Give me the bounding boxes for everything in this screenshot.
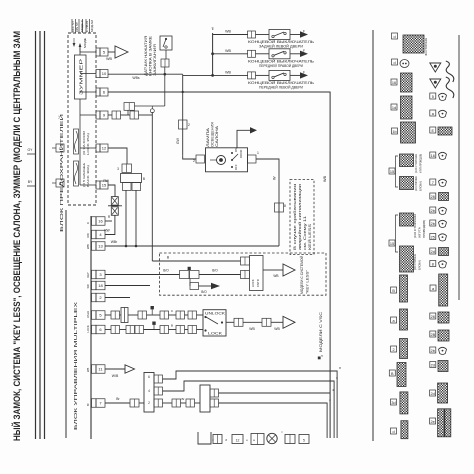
svg-text:WB: WB: [106, 57, 112, 61]
svg-text:RW: RW: [86, 233, 90, 238]
svg-text:E: E: [432, 129, 435, 133]
svg-text:UNLOCK: UNLOCK: [205, 312, 226, 316]
svg-text:1: 1: [257, 151, 259, 155]
svg-text:W: W: [273, 176, 277, 180]
svg-text:B: B: [171, 324, 173, 328]
svg-text:3d: 3d: [391, 401, 395, 405]
svg-text:2d: 2d: [431, 250, 435, 254]
svg-text:UNLK: UNLK: [86, 311, 90, 318]
svg-text:2e: 2e: [430, 420, 434, 424]
svg-text:C ЛЮЧ: C ЛЮЧ: [85, 21, 89, 32]
svg-text:26: 26: [431, 195, 435, 199]
svg-text:ЗАЖИГАНИЯ: ЗАЖИГАНИЯ: [153, 43, 157, 76]
svg-text:см. Схему 11: см. Схему 11: [303, 216, 307, 250]
svg-text:ДАТЧИК НАЖАТИЯ: ДАТЧИК НАЖАТИЯ: [144, 35, 148, 76]
svg-text:B/O: B/O: [201, 290, 207, 294]
svg-text:2b: 2b: [431, 209, 435, 213]
svg-text:F: F: [303, 49, 305, 53]
svg-text:8: 8: [284, 204, 286, 208]
svg-text:F: F: [303, 30, 305, 34]
svg-text:GW: GW: [176, 137, 180, 144]
svg-text:ПРОВОДОВ): ПРОВОДОВ): [422, 220, 426, 238]
svg-text:18: 18: [98, 283, 103, 288]
svg-text:C: C: [59, 147, 62, 151]
svg-text:ОСВЕЩЕНИЯ: ОСВЕЩЕНИЯ: [211, 122, 215, 147]
svg-text:15: 15: [390, 242, 394, 246]
svg-text:САЛОНА: САЛОНА: [215, 125, 219, 147]
svg-text:(СО СТОРОНЫ: (СО СТОРОНЫ: [414, 176, 418, 191]
svg-text:Έ: Έ: [210, 27, 214, 31]
svg-text:ЖГУТА ПРОВОДОВ): ЖГУТА ПРОВОДОВ): [419, 154, 423, 173]
svg-text:ON 5T: ON 5T: [75, 22, 79, 32]
svg-text:15: 15: [102, 183, 107, 188]
svg-text:16: 16: [431, 154, 435, 158]
svg-text:(СО СТОРОНЫ: (СО СТОРОНЫ: [413, 254, 417, 270]
svg-text:В случае срабатывания: В случае срабатывания: [293, 184, 297, 250]
svg-text:КЕЙ LESS: КЕЙ LESS: [308, 224, 312, 250]
svg-text:GY: GY: [28, 148, 34, 152]
svg-text:26: 26: [431, 315, 435, 319]
svg-text:15: 15: [390, 170, 394, 174]
svg-text:R: R: [86, 222, 90, 224]
svg-text:ON: ON: [234, 148, 238, 152]
svg-text:KEY: KEY: [86, 272, 90, 277]
svg-text:B/O: B/O: [163, 269, 169, 273]
svg-text:d: d: [393, 61, 395, 65]
svg-text:КНОПКА В ЗАМКЕ: КНОПКА В ЗАМКЕ: [149, 35, 153, 76]
svg-text:RW: RW: [104, 229, 109, 233]
svg-text:аварийной сигнализации: аварийной сигнализации: [298, 184, 302, 250]
svg-text:WBs: WBs: [132, 76, 139, 80]
svg-text:2: 2: [393, 348, 395, 352]
svg-text:OFF: OFF: [234, 164, 238, 170]
svg-text:2: 2: [193, 159, 195, 163]
svg-text:B: B: [143, 177, 145, 181]
svg-text:Br: Br: [86, 403, 90, 406]
svg-text:"KEY LESS": "KEY LESS": [306, 269, 310, 294]
svg-text:БЛОК УПРАВЛЕНИЯ MULTIPLEX: БЛОК УПРАВЛЕНИЯ MULTIPLEX: [73, 301, 79, 430]
svg-text:ЗАДНЕЙ ЛЕВОЙ ДВЕРИ: ЗАДНЕЙ ЛЕВОЙ ДВЕРИ: [259, 44, 303, 49]
svg-text:16: 16: [98, 219, 103, 224]
svg-text:2B: 2B: [430, 333, 435, 337]
svg-text:2: 2: [148, 401, 150, 405]
svg-text:CNTR: CNTR: [256, 279, 260, 287]
svg-text:МОДЕЛИ С VSC: МОДЕЛИ С VSC: [319, 312, 323, 352]
svg-text:SW: SW: [86, 284, 90, 289]
svg-text:8: 8: [432, 262, 434, 266]
svg-text:2d: 2d: [430, 392, 434, 396]
svg-text:МОДЕЛИ С СИСТЕМОЙ: МОДЕЛИ С СИСТЕМОЙ: [300, 256, 304, 294]
svg-text:5: 5: [303, 439, 305, 443]
svg-text:25: 25: [431, 235, 435, 239]
svg-text:БЛОК ПРЕДОХРАНИТЕЛЕЙ: БЛОК ПРЕДОХРАНИТЕЛЕЙ: [57, 114, 64, 232]
svg-text:WB: WB: [86, 368, 90, 372]
svg-text:LOCK: LOCK: [86, 325, 90, 332]
svg-text:МОД АМ: МОД АМ: [90, 20, 94, 32]
svg-text:2b: 2b: [431, 222, 435, 226]
svg-text:ПЕРЕДНЕЙ ЛЕВОЙ ДВЕРИ: ПЕРЕДНЕЙ ЛЕВОЙ ДВЕРИ: [259, 85, 303, 90]
svg-text:F: F: [303, 70, 305, 74]
svg-text:WBr: WBr: [86, 244, 90, 249]
svg-text:З: З: [225, 438, 227, 442]
svg-text:Ф3 СТОРОНЫ: Ф3 СТОРОНЫ: [424, 37, 428, 56]
svg-text:МОДЕ: МОДЕ: [83, 38, 87, 48]
svg-text:ПЕРЕДНЕЙ ПРАВОЙ ДВЕРИ: ПЕРЕДНЕЙ ПРАВОЙ ДВЕРИ: [259, 63, 303, 68]
svg-text:ЗУММЕР: ЗУММЕР: [79, 59, 84, 95]
svg-text:2b: 2b: [431, 349, 435, 353]
svg-text:WB: WB: [225, 49, 231, 53]
svg-text:W/B: W/B: [112, 374, 119, 378]
svg-text:НЫЙ ЗАМОК, СИСТЕМА "KEY LESS",: НЫЙ ЗАМОК, СИСТЕМА "KEY LESS", ОСВЕЩЕНИЕ…: [11, 31, 23, 441]
svg-text:4: 4: [148, 389, 150, 393]
svg-text:LOCK: LOCK: [208, 332, 223, 336]
svg-text:10: 10: [102, 71, 107, 76]
svg-text:2d: 2d: [431, 363, 435, 367]
svg-text:БЛОКА): БЛОКА): [418, 260, 422, 270]
svg-text:5: 5: [432, 95, 434, 99]
svg-text:B: B: [391, 372, 394, 376]
svg-text:LOCK 15A): LOCK 15A): [86, 133, 90, 155]
svg-text:WB: WB: [225, 30, 231, 34]
svg-text:13: 13: [98, 244, 103, 249]
svg-text:WB: WB: [249, 327, 255, 331]
svg-text:LOCK: LOCK: [251, 279, 255, 287]
svg-text:12: 12: [236, 439, 240, 443]
svg-text:6: 6: [148, 375, 150, 379]
svg-text:WBr: WBr: [111, 240, 118, 244]
svg-text:(СО СТОРОНЫ: (СО СТОРОНЫ: [413, 213, 417, 238]
svg-text:ЖГУТА: ЖГУТА: [418, 227, 422, 238]
svg-text:d: d: [393, 35, 395, 39]
svg-text:(СО СТОРОНЫ: (СО СТОРОНЫ: [414, 154, 418, 173]
svg-text:16: 16: [392, 81, 396, 85]
svg-text:WB: WB: [274, 327, 280, 331]
svg-text:2: 2: [188, 123, 190, 127]
svg-text:МОДЕ C: МОДЕ C: [80, 19, 84, 32]
svg-text:BY: BY: [28, 180, 33, 184]
svg-text:WB: WB: [273, 274, 278, 278]
svg-text:B/O: B/O: [212, 269, 218, 273]
svg-text:WB: WB: [225, 70, 231, 74]
svg-text:ЛАМПА: ЛАМПА: [206, 127, 210, 147]
svg-text:12: 12: [102, 146, 107, 151]
svg-text:WB: WB: [323, 175, 327, 182]
svg-text:3: 3: [117, 167, 119, 171]
svg-text:d: d: [392, 430, 394, 434]
svg-text:Br: Br: [182, 397, 185, 401]
svg-text:DOOR: DOOR: [239, 150, 243, 158]
svg-text:1b: 1b: [392, 130, 396, 134]
svg-text:RW: RW: [103, 179, 108, 183]
svg-text:7: 7: [432, 181, 434, 185]
svg-text:1d: 1d: [392, 106, 396, 110]
svg-text:BACK 10A): BACK 10A): [86, 165, 90, 187]
svg-text:БЛОКА): БЛОКА): [419, 181, 423, 191]
